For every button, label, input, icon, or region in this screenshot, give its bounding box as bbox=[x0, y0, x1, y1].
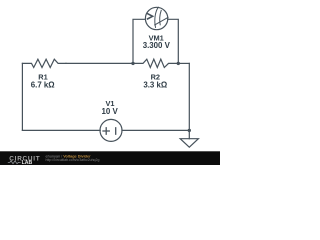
svg-text:6.7 kΩ: 6.7 kΩ bbox=[31, 80, 55, 89]
node: junction ground / V1 - bbox=[188, 129, 191, 132]
voltage source V1 bbox=[100, 119, 122, 141]
voltmeter VM1 bbox=[145, 7, 168, 30]
resistor R1 bbox=[22, 59, 66, 67]
svg-text:http://circuitlab.com/c/3afkc2: http://circuitlab.com/c/3afkc2uhq2g bbox=[46, 158, 100, 162]
wire: right vertical down to ground node bbox=[188, 63, 190, 130]
wire: middle horizontal between R1 and node A2 bbox=[66, 62, 133, 64]
node: junction R2 right / voltmeter - bbox=[177, 62, 180, 65]
node: junction R2 left / voltmeter + bbox=[131, 62, 134, 65]
wire: bottom left horizontal to V1 + terminal bbox=[22, 129, 100, 131]
wire: bottom right horizontal V1 - terminal to ground node bbox=[122, 129, 189, 131]
svg-text:3.300 V: 3.300 V bbox=[143, 41, 171, 50]
svg-text:3.3 kΩ: 3.3 kΩ bbox=[143, 80, 167, 89]
footer bar bbox=[0, 151, 220, 165]
wire: voltmeter right branch bbox=[168, 19, 179, 63]
wire: top right from node B to right vertical bbox=[178, 62, 189, 64]
ground bbox=[180, 130, 198, 147]
svg-text:LAB: LAB bbox=[22, 160, 33, 165]
resistor R2 bbox=[133, 59, 178, 67]
footer logo zigzag bbox=[8, 161, 21, 164]
svg-text:10 V: 10 V bbox=[101, 107, 118, 116]
wire: left vertical (node A to V1 +) bbox=[21, 63, 23, 130]
wire: voltmeter left branch bbox=[133, 19, 145, 63]
